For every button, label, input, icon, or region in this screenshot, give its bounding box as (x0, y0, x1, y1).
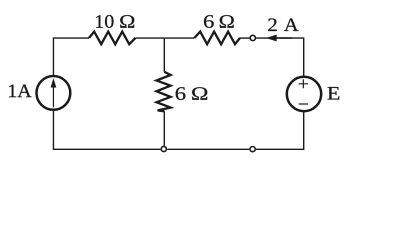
wire between R1 and R2 (node A branch tap) (136, 37, 195, 39)
wire top-left + left vertical upper (53, 38, 89, 75)
wire R2 to terminal (240, 37, 250, 39)
label E (328, 87, 340, 99)
label 6 ohm middle text '6' (176, 87, 186, 100)
wire bottom-left + left vertical lower (53, 111, 160, 149)
wire terminal to top-right corner + right vertical upper (256, 38, 304, 76)
resistor R3 6ohm middle vertical (157, 72, 171, 112)
minus sign (299, 103, 308, 105)
current source arrow (52, 86, 54, 108)
wire middle branch lower (163, 111, 165, 146)
plus sign (299, 79, 308, 88)
current arrow 2A tail (276, 37, 292, 39)
terminal node bottom left (161, 146, 166, 151)
terminal node top (250, 35, 255, 40)
wire middle branch upper (163, 38, 165, 72)
label 1A (9, 85, 32, 98)
wire right vertical lower + bottom-right (256, 112, 304, 149)
label 10 ohm text '10' (96, 15, 114, 28)
resistor R2 6ohm top (194, 32, 240, 45)
label 6 ohm middle omega (192, 87, 207, 100)
voltage source E circle (287, 77, 321, 111)
label 6 ohm top text '6' (204, 15, 214, 28)
label 2 A text 'A' (284, 18, 299, 31)
wire bottom middle (167, 148, 249, 150)
terminal node bottom right (250, 147, 255, 152)
label 10 ohm omega (120, 15, 134, 28)
label 2 A text '2' (268, 18, 276, 31)
current source I1 circle (37, 76, 71, 110)
label 6 ohm top omega (220, 15, 234, 28)
resistor R1 10ohm (89, 32, 136, 45)
current arrow 2A head (266, 35, 276, 41)
